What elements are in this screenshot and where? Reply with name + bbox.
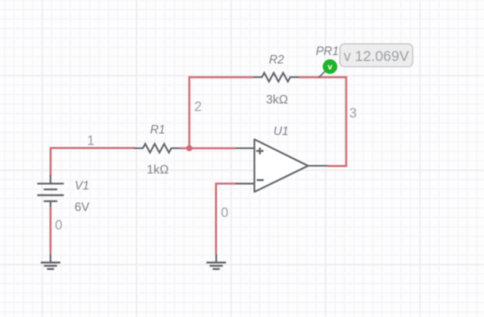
resistor R2 xyxy=(253,73,299,82)
svg-text:0: 0 xyxy=(221,205,229,220)
svg-text:6V: 6V xyxy=(75,200,91,214)
wire: battery minus to ground xyxy=(50,207,52,253)
svg-text:2: 2 xyxy=(194,99,202,114)
ground GND1 xyxy=(50,254,52,263)
op-amp U1 xyxy=(236,139,328,192)
svg-text:3: 3 xyxy=(349,105,357,120)
wire: R1 to op-amp + input (node 2 branch) xyxy=(180,147,236,149)
wire net 1: battery top to R1 xyxy=(51,148,135,175)
svg-text:PR1: PR1 xyxy=(316,44,339,58)
svg-text:v: v xyxy=(328,62,333,72)
probe tooltip box xyxy=(340,44,413,67)
battery V1 xyxy=(37,175,64,207)
svg-text:v 12.069V: v 12.069V xyxy=(344,49,410,65)
wire: junction up and right along top (node 2) xyxy=(189,77,253,148)
svg-text:1: 1 xyxy=(87,133,95,148)
resistor R1 xyxy=(134,144,180,153)
junction dot node 2 xyxy=(186,145,192,151)
ground GND2 xyxy=(215,254,217,263)
svg-text:3kΩ: 3kΩ xyxy=(266,92,288,106)
svg-text:0: 0 xyxy=(55,218,63,233)
svg-text:1kΩ: 1kΩ xyxy=(147,163,169,177)
wire: R2 to node 3 corner and down to output xyxy=(299,77,346,166)
svg-text:U1: U1 xyxy=(273,124,288,138)
wire: op-amp - input down to ground (node 0) xyxy=(216,184,236,254)
probe PR1 pointer xyxy=(319,71,325,77)
probe PR1 green circle xyxy=(323,59,338,74)
svg-text:R1: R1 xyxy=(150,123,165,137)
svg-text:V1: V1 xyxy=(75,179,89,193)
svg-text:R2: R2 xyxy=(269,52,285,66)
